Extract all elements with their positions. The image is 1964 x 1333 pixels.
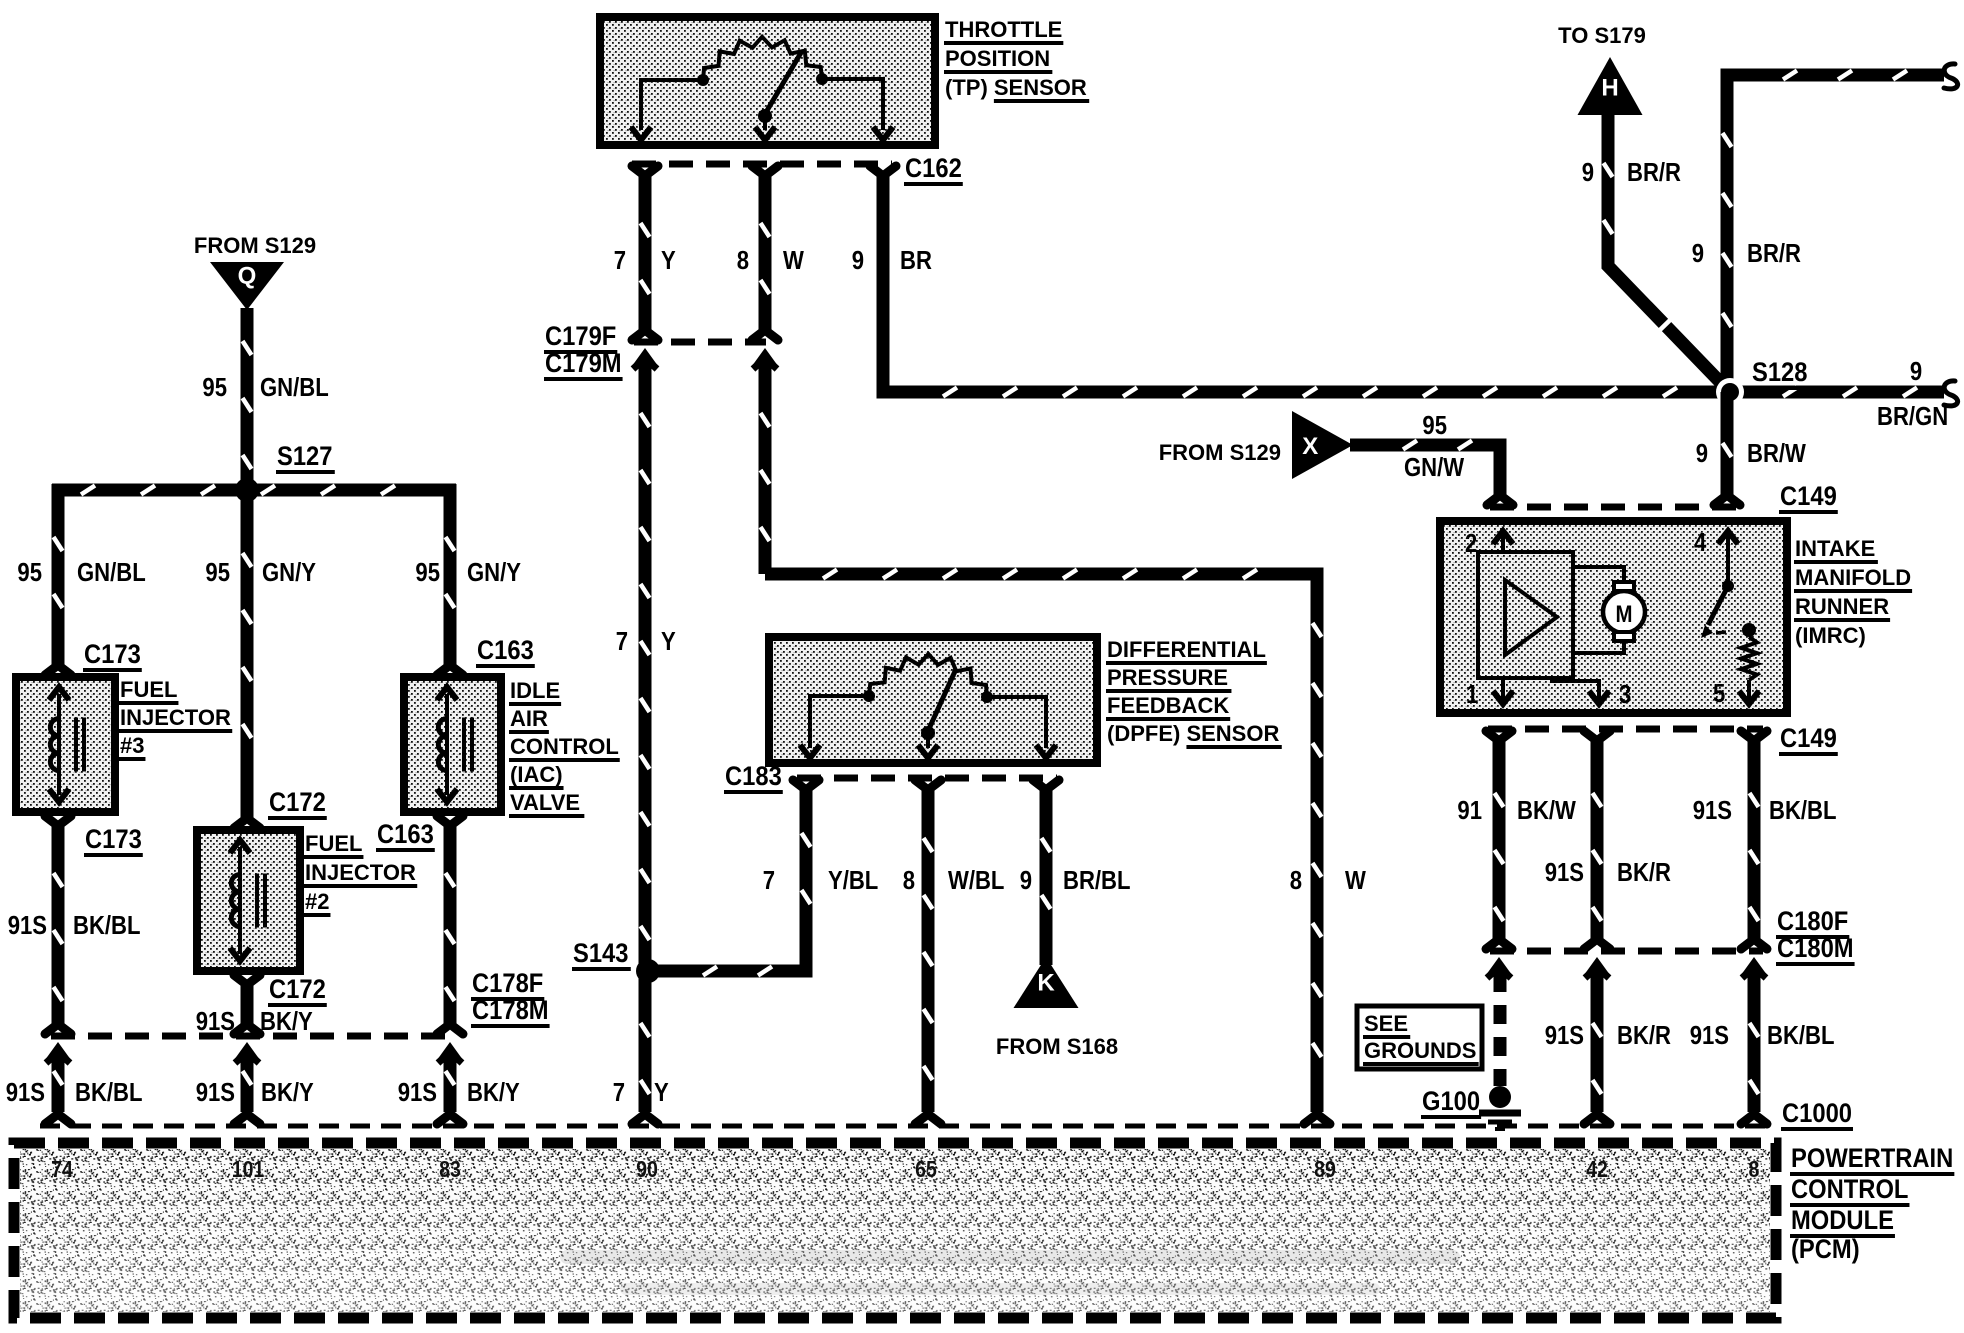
svg-text:91S: 91S [196,1078,235,1107]
svg-text:9: 9 [1020,866,1032,895]
svg-text:BR/BL: BR/BL [1063,866,1130,895]
svg-text:91S: 91S [1693,796,1732,825]
svg-text:W: W [783,246,804,275]
svg-text:BR/W: BR/W [1747,439,1806,468]
svg-text:7: 7 [616,627,628,656]
svg-text:BK/W: BK/W [1517,796,1576,825]
svg-text:S128: S128 [1752,358,1807,388]
svg-text:C178F: C178F [472,969,543,999]
svg-text:5: 5 [1713,679,1725,708]
svg-text:C178M: C178M [472,996,549,1026]
svg-text:S127: S127 [277,442,332,472]
svg-text:3: 3 [1619,680,1631,709]
svg-text:Y: Y [661,246,676,275]
svg-text:Y/BL: Y/BL [828,866,878,895]
svg-text:POSITION: POSITION [945,46,1050,71]
svg-text:C179F: C179F [545,322,616,352]
svg-text:(PCM): (PCM) [1791,1235,1860,1265]
svg-text:GN/Y: GN/Y [262,558,316,587]
svg-text:91S: 91S [6,1078,45,1107]
svg-text:GN/W: GN/W [1404,453,1464,482]
svg-text:BR/R: BR/R [1627,158,1681,187]
svg-text:C180F: C180F [1777,907,1848,937]
svg-text:8: 8 [1749,1157,1760,1183]
svg-text:FEEDBACK: FEEDBACK [1107,693,1229,718]
svg-text:TO S179: TO S179 [1558,23,1646,48]
svg-text:(IAC): (IAC) [510,762,563,787]
svg-text:GN/BL: GN/BL [77,558,146,587]
svg-text:91S: 91S [1690,1021,1729,1050]
svg-text:(TP) SENSOR: (TP) SENSOR [945,75,1087,100]
svg-text:C163: C163 [377,820,434,850]
svg-text:C163: C163 [477,636,534,666]
svg-text:BK/Y: BK/Y [260,1007,313,1036]
svg-text:S143: S143 [573,939,628,969]
svg-text:95: 95 [202,373,227,402]
svg-text:W: W [1345,866,1366,895]
svg-text:DIFFERENTIAL: DIFFERENTIAL [1107,637,1266,662]
svg-text:4: 4 [1694,528,1707,557]
svg-text:C183: C183 [725,762,782,792]
svg-text:POWERTRAIN: POWERTRAIN [1791,1144,1953,1174]
svg-text:CONTROL: CONTROL [1791,1175,1908,1205]
svg-text:THROTTLE: THROTTLE [945,17,1062,42]
svg-text:91S: 91S [8,911,47,940]
svg-text:7: 7 [613,1078,625,1107]
svg-text:BR/GN: BR/GN [1877,402,1948,431]
svg-text:C162: C162 [905,154,962,184]
svg-text:IDLE: IDLE [510,678,560,703]
svg-text:Q: Q [238,263,257,290]
svg-text:9: 9 [1692,239,1704,268]
svg-text:W/BL: W/BL [948,866,1004,895]
svg-text:2: 2 [1465,529,1477,558]
svg-text:83: 83 [439,1157,461,1183]
svg-text:BK/R: BK/R [1617,1021,1671,1050]
svg-text:BK/BL: BK/BL [73,911,140,940]
svg-text:FROM S129: FROM S129 [1159,440,1281,465]
svg-text:9: 9 [1696,439,1708,468]
svg-text:INJECTOR: INJECTOR [305,860,416,885]
svg-text:FUEL: FUEL [305,831,362,856]
svg-text:INJECTOR: INJECTOR [120,705,231,730]
svg-text:(IMRC): (IMRC) [1795,623,1866,648]
svg-text:BR/R: BR/R [1747,239,1801,268]
svg-text:(DPFE) SENSOR: (DPFE) SENSOR [1107,721,1279,746]
svg-text:M: M [1615,600,1632,627]
svg-text:101: 101 [232,1157,265,1183]
svg-text:95: 95 [17,558,42,587]
svg-text:C1000: C1000 [1782,1099,1852,1129]
svg-text:C172: C172 [269,788,326,818]
svg-text:90: 90 [636,1157,658,1183]
svg-text:89: 89 [1314,1157,1336,1183]
svg-text:CONTROL: CONTROL [510,734,619,759]
svg-text:C149: C149 [1780,724,1837,754]
svg-text:91S: 91S [1545,1021,1584,1050]
svg-text:91S: 91S [1545,858,1584,887]
svg-text:VALVE: VALVE [510,790,580,815]
svg-text:BK/Y: BK/Y [261,1078,314,1107]
svg-text:Y: Y [661,627,676,656]
svg-text:65: 65 [915,1157,937,1183]
svg-text:7: 7 [614,246,626,275]
svg-text:9: 9 [1582,158,1594,187]
svg-text:RUNNER: RUNNER [1795,594,1889,619]
svg-text:FROM S168: FROM S168 [996,1034,1118,1059]
svg-text:74: 74 [51,1157,73,1183]
svg-text:BK/Y: BK/Y [467,1078,520,1107]
svg-text:K: K [1037,970,1055,997]
svg-text:C179M: C179M [545,349,622,379]
svg-text:GN/BL: GN/BL [260,373,329,402]
svg-text:8: 8 [1290,866,1302,895]
svg-text:7: 7 [763,866,775,895]
svg-text:C149: C149 [1780,482,1837,512]
svg-text:AIR: AIR [510,706,548,731]
svg-text:SEE: SEE [1364,1011,1408,1036]
svg-text:91S: 91S [196,1007,235,1036]
svg-text:H: H [1601,74,1618,101]
svg-text:91S: 91S [398,1078,437,1107]
svg-text:MANIFOLD: MANIFOLD [1795,565,1911,590]
svg-text:FUEL: FUEL [120,677,177,702]
svg-text:95: 95 [205,558,230,587]
svg-text:C173: C173 [85,825,142,855]
svg-text:GN/Y: GN/Y [467,558,521,587]
svg-text:INTAKE: INTAKE [1795,536,1875,561]
svg-text:BK/R: BK/R [1617,858,1671,887]
svg-text:FROM S129: FROM S129 [194,233,316,258]
svg-text:C173: C173 [84,640,141,670]
svg-text:9: 9 [852,246,864,275]
svg-text:1: 1 [1466,680,1478,709]
svg-text:8: 8 [903,866,915,895]
svg-text:BK/BL: BK/BL [1767,1021,1834,1050]
svg-text:GROUNDS: GROUNDS [1364,1038,1476,1063]
svg-text:#2: #2 [305,889,329,914]
svg-text:BK/BL: BK/BL [75,1078,142,1107]
svg-text:C172: C172 [269,975,326,1005]
svg-text:MODULE: MODULE [1791,1206,1894,1236]
svg-text:Y: Y [654,1078,669,1107]
svg-text:#3: #3 [120,733,144,758]
svg-text:42: 42 [1586,1157,1608,1183]
svg-text:X: X [1302,433,1318,460]
svg-text:9: 9 [1910,357,1922,386]
svg-text:91: 91 [1457,796,1482,825]
svg-text:95: 95 [1422,411,1447,440]
svg-text:95: 95 [415,558,440,587]
svg-text:PRESSURE: PRESSURE [1107,665,1228,690]
svg-text:BK/BL: BK/BL [1769,796,1836,825]
svg-text:G100: G100 [1422,1087,1480,1117]
svg-text:BR: BR [900,246,932,275]
svg-text:8: 8 [737,246,749,275]
svg-text:C180M: C180M [1777,934,1854,964]
